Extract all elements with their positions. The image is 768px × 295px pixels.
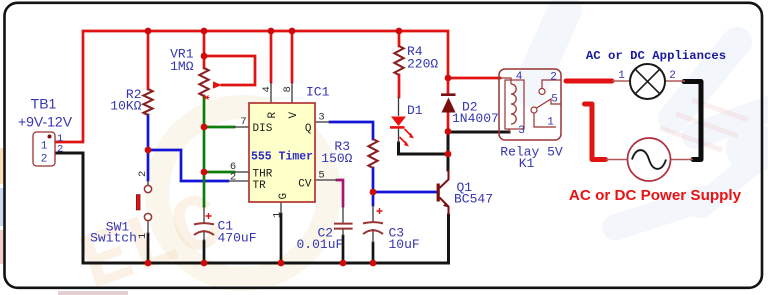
IC U1 555 timer body — [249, 103, 315, 202]
wire IC1 GND pin1 to ground rail — [280, 214, 283, 263]
svg-text:1: 1 — [547, 117, 554, 129]
junction gnd C3 — [370, 260, 377, 267]
svg-text:5: 5 — [551, 94, 558, 106]
potentiometer VR1 — [199, 68, 222, 100]
svg-text:V: V — [288, 112, 300, 119]
pin lead C2 bottom — [342, 229, 344, 236]
capacitor C3 electrolytic — [363, 208, 383, 234]
svg-text:D1: D1 — [407, 103, 423, 118]
svg-text:R: R — [267, 112, 279, 119]
svg-text:0.01uF: 0.01uF — [297, 237, 344, 252]
junction rail-VR1 — [201, 28, 208, 35]
svg-text:555 Timer: 555 Timer — [251, 151, 313, 164]
svg-text:1: 1 — [618, 70, 625, 82]
wire D2 node down to Q1 collector — [447, 132, 450, 171]
svg-text:3: 3 — [318, 112, 324, 124]
pin lead C1 bottom — [203, 230, 205, 241]
svg-text:2: 2 — [550, 72, 557, 84]
junction VR1 wiper — [201, 53, 208, 60]
resistor R4 — [394, 46, 403, 75]
pin lead IC1 pin4 — [270, 82, 272, 103]
wire C1 bottom to ground rail — [203, 241, 206, 263]
resistor R3 — [368, 139, 377, 168]
svg-text:Switch: Switch — [90, 231, 137, 246]
wire threshold tap to IC1 DIS pin7 — [204, 126, 234, 129]
wire trigger node to IC1 TR pin2 — [148, 150, 228, 181]
relay coil — [511, 84, 516, 124]
junction rail-R2 — [145, 28, 152, 35]
svg-text:10uF: 10uF — [389, 237, 420, 252]
svg-text:1: 1 — [272, 212, 284, 218]
svg-text:1: 1 — [41, 141, 48, 153]
wire base node to Q1 base — [373, 191, 436, 194]
wire C3 bottom to ground rail — [372, 243, 375, 263]
pin lead power supply right — [671, 159, 694, 161]
wire SW1 bottom to ground rail — [147, 234, 150, 263]
svg-text:K1: K1 — [519, 156, 535, 171]
wire R3 bottom to base node and C3 — [372, 168, 375, 205]
pin lead lamp terminal 2 — [665, 80, 685, 82]
svg-text:IC1: IC1 — [306, 85, 330, 100]
svg-text:3: 3 — [518, 125, 525, 137]
svg-text:4: 4 — [261, 86, 273, 92]
wire collector node to relay coil pin3 — [448, 131, 509, 134]
svg-text:TR: TR — [253, 180, 267, 192]
pin lead C2 top — [342, 206, 344, 223]
transistor Q1 BC547 — [437, 170, 450, 215]
svg-text:2: 2 — [41, 154, 48, 166]
wire trigger node down to SW1 — [147, 150, 150, 180]
svg-text:220Ω: 220Ω — [407, 57, 438, 72]
svg-text:2: 2 — [230, 172, 236, 184]
svg-text:2: 2 — [57, 144, 63, 156]
junction THR tap — [201, 169, 208, 176]
pin lead IC1 Q pin3 — [315, 121, 330, 123]
svg-text:1MΩ: 1MΩ — [170, 59, 194, 74]
svg-text:Q: Q — [305, 123, 312, 135]
svg-text:4: 4 — [516, 71, 523, 83]
junction gnd IC — [278, 260, 285, 267]
svg-text:470uF: 470uF — [218, 231, 257, 246]
pin lead C1 top — [203, 206, 205, 223]
pin lead IC1 CV pin5 — [315, 179, 337, 181]
wire C2 bottom to ground rail — [342, 236, 345, 263]
relay NC contact pin1 — [534, 113, 556, 127]
svg-text:G: G — [278, 193, 290, 200]
pin lead IC1 pin8 — [291, 82, 293, 103]
wire IC1 CV pin5 to C2 — [337, 180, 343, 206]
relay moving contact — [531, 107, 537, 113]
svg-text:1: 1 — [137, 233, 149, 239]
wire relay coil pin4 feed — [448, 77, 500, 80]
pin lead D1 cathode — [398, 128, 400, 143]
wire relay pin5 to power supply (thick red) — [585, 104, 606, 160]
wire IC1 pin8 supply drop — [291, 31, 294, 82]
LED D1 — [390, 117, 414, 147]
pin lead C3 top — [372, 205, 374, 222]
svg-text:AC or DC Appliances: AC or DC Appliances — [586, 49, 726, 63]
svg-text:2: 2 — [137, 171, 149, 177]
junction rail-pin4 — [268, 28, 275, 35]
resistor R2 — [143, 89, 152, 115]
junction D2-relay — [445, 75, 452, 82]
wire IC1 Q pin3 to R3 top — [330, 122, 373, 139]
wire VR1 top tap from VCC rail — [203, 31, 206, 68]
svg-text:2: 2 — [669, 70, 676, 82]
pin lead SW1 bottom — [147, 221, 149, 234]
relay K1 — [499, 69, 561, 140]
pushbutton SW1 — [136, 185, 151, 220]
wire relay pin2 to lamp terminal 1 (thick red) — [566, 79, 612, 84]
junction rail-R4 — [396, 28, 403, 35]
junction gnd C1 — [201, 260, 208, 267]
capacitor C1 electrolytic — [194, 213, 214, 235]
wire IC1 pin4 supply drop — [270, 31, 273, 82]
svg-text:AC or DC Power Supply: AC or DC Power Supply — [569, 187, 742, 204]
connector TB1 — [33, 132, 55, 166]
capacitor C2 — [334, 224, 353, 229]
pin lead SW1 top — [147, 180, 149, 185]
pin lead power supply left — [606, 159, 628, 161]
svg-text:8: 8 — [282, 86, 294, 92]
wire ground rail from TB1 pin2 across bottom — [55, 153, 449, 263]
wire threshold tap to IC1 THR pin6 — [204, 171, 234, 174]
junction base node — [370, 189, 377, 196]
wire LED D1 cathode to collector node — [399, 143, 449, 154]
lamp (appliance) — [630, 64, 665, 99]
wire VCC top rail from TB1 pin1 up and across to D2 — [55, 31, 448, 142]
wire R4 bottom to LED D1 anode — [398, 75, 401, 97]
wire D2 anode to collector node — [447, 113, 450, 132]
junction gnd SW1 — [145, 260, 152, 267]
pin lead IC1 GND pin1 — [280, 202, 282, 214]
svg-text:5: 5 — [318, 170, 324, 182]
svg-text:THR: THR — [253, 169, 273, 181]
pin lead IC1 THR pin6 — [234, 171, 249, 173]
wire VR1 bottom down to C1 (threshold net) — [203, 96, 206, 206]
wire lamp terminal 2 to power supply (thick black) — [684, 82, 701, 160]
svg-text:7: 7 — [240, 116, 246, 128]
svg-text:DIS: DIS — [253, 123, 273, 135]
wire R2 top tap from VCC rail — [147, 31, 150, 89]
junction rail-pin8 — [289, 28, 296, 35]
junction DIS tap — [201, 124, 208, 131]
svg-text:+9V-12V: +9V-12V — [18, 114, 73, 130]
relay contact common pin2 — [542, 80, 561, 88]
wire R4 top tap from VCC rail — [398, 31, 401, 46]
junction collector LED — [445, 151, 452, 158]
svg-text:BC547: BC547 — [454, 192, 493, 207]
junction trigger — [145, 147, 152, 154]
pin lead D1 anode — [398, 97, 400, 116]
pin lead lamp terminal 1 — [612, 80, 630, 82]
pin lead IC1 TR pin2 — [228, 180, 249, 182]
wire R2 bottom to trigger node — [147, 115, 150, 150]
diode D2 1N4007 — [441, 95, 456, 113]
svg-text:1N4007: 1N4007 — [452, 111, 499, 126]
junction gnd C2 — [340, 260, 347, 267]
wire VR1 wiper loop — [204, 56, 255, 85]
svg-text:TB1: TB1 — [31, 96, 57, 112]
svg-text:CV: CV — [298, 179, 312, 191]
pin lead C3 bottom — [372, 229, 374, 243]
AC power source — [628, 138, 671, 181]
junction collector top — [445, 128, 452, 135]
svg-text:150Ω: 150Ω — [321, 151, 352, 166]
svg-text:10KΩ: 10KΩ — [110, 99, 141, 114]
pin lead IC1 DIS pin7 — [234, 126, 249, 128]
